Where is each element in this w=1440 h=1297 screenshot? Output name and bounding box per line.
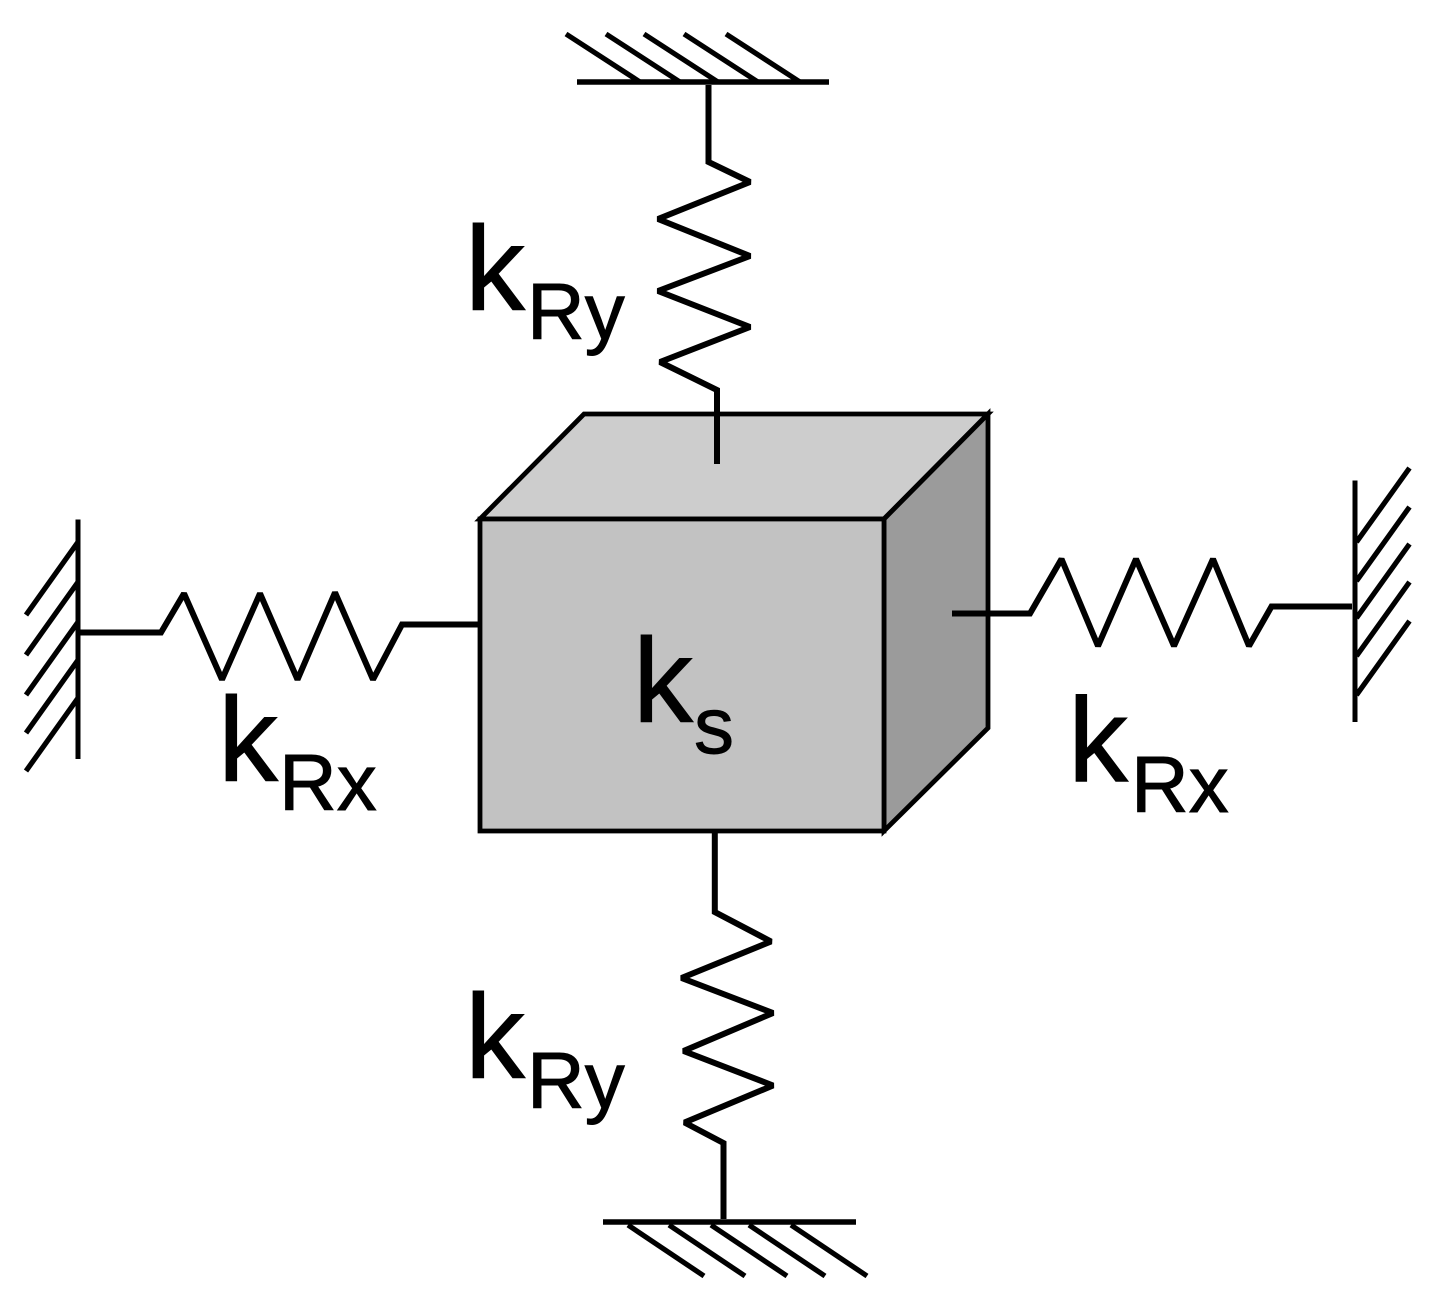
svg-text:Rx: Rx — [279, 738, 377, 827]
spring kRx right (zigzag + end segments) — [952, 559, 1352, 646]
label kRx (right) — [1068, 674, 1229, 830]
svg-text:k: k — [218, 673, 279, 807]
label kRy (top) — [465, 202, 625, 356]
fixed support left wall: wall line — [76, 520, 81, 760]
label ks (on mass) — [633, 614, 734, 770]
spring kRy top (zigzag + stems) — [658, 85, 750, 464]
spring kRy bottom (zigzag + stems) — [682, 831, 774, 1219]
spring kRx left (zigzag + end segments) — [80, 593, 482, 680]
fixed support floor: hatch strokes — [628, 1225, 867, 1276]
svg-text:Rx: Rx — [1131, 740, 1229, 829]
fixed support ceiling: wall line — [577, 79, 829, 85]
fixed support right wall: hatch strokes — [1357, 468, 1410, 695]
fixed support left wall: hatch strokes — [26, 542, 78, 771]
mass block front face — [480, 519, 884, 831]
svg-text:k: k — [465, 202, 526, 336]
label kRy (bottom) — [465, 970, 625, 1125]
svg-text:Ry: Ry — [527, 267, 625, 356]
svg-text:Ry: Ry — [527, 1036, 625, 1125]
svg-text:k: k — [633, 614, 694, 748]
svg-text:s: s — [694, 681, 734, 770]
mass block right face — [884, 414, 988, 831]
svg-text:k: k — [465, 970, 526, 1104]
fixed support floor: wall line — [603, 1219, 856, 1225]
svg-text:k: k — [1068, 674, 1129, 808]
fixed support ceiling: hatch strokes — [566, 34, 800, 82]
mass block top face — [480, 414, 988, 519]
fixed support right wall: wall line — [1353, 481, 1358, 723]
label kRx (left) — [218, 673, 377, 827]
